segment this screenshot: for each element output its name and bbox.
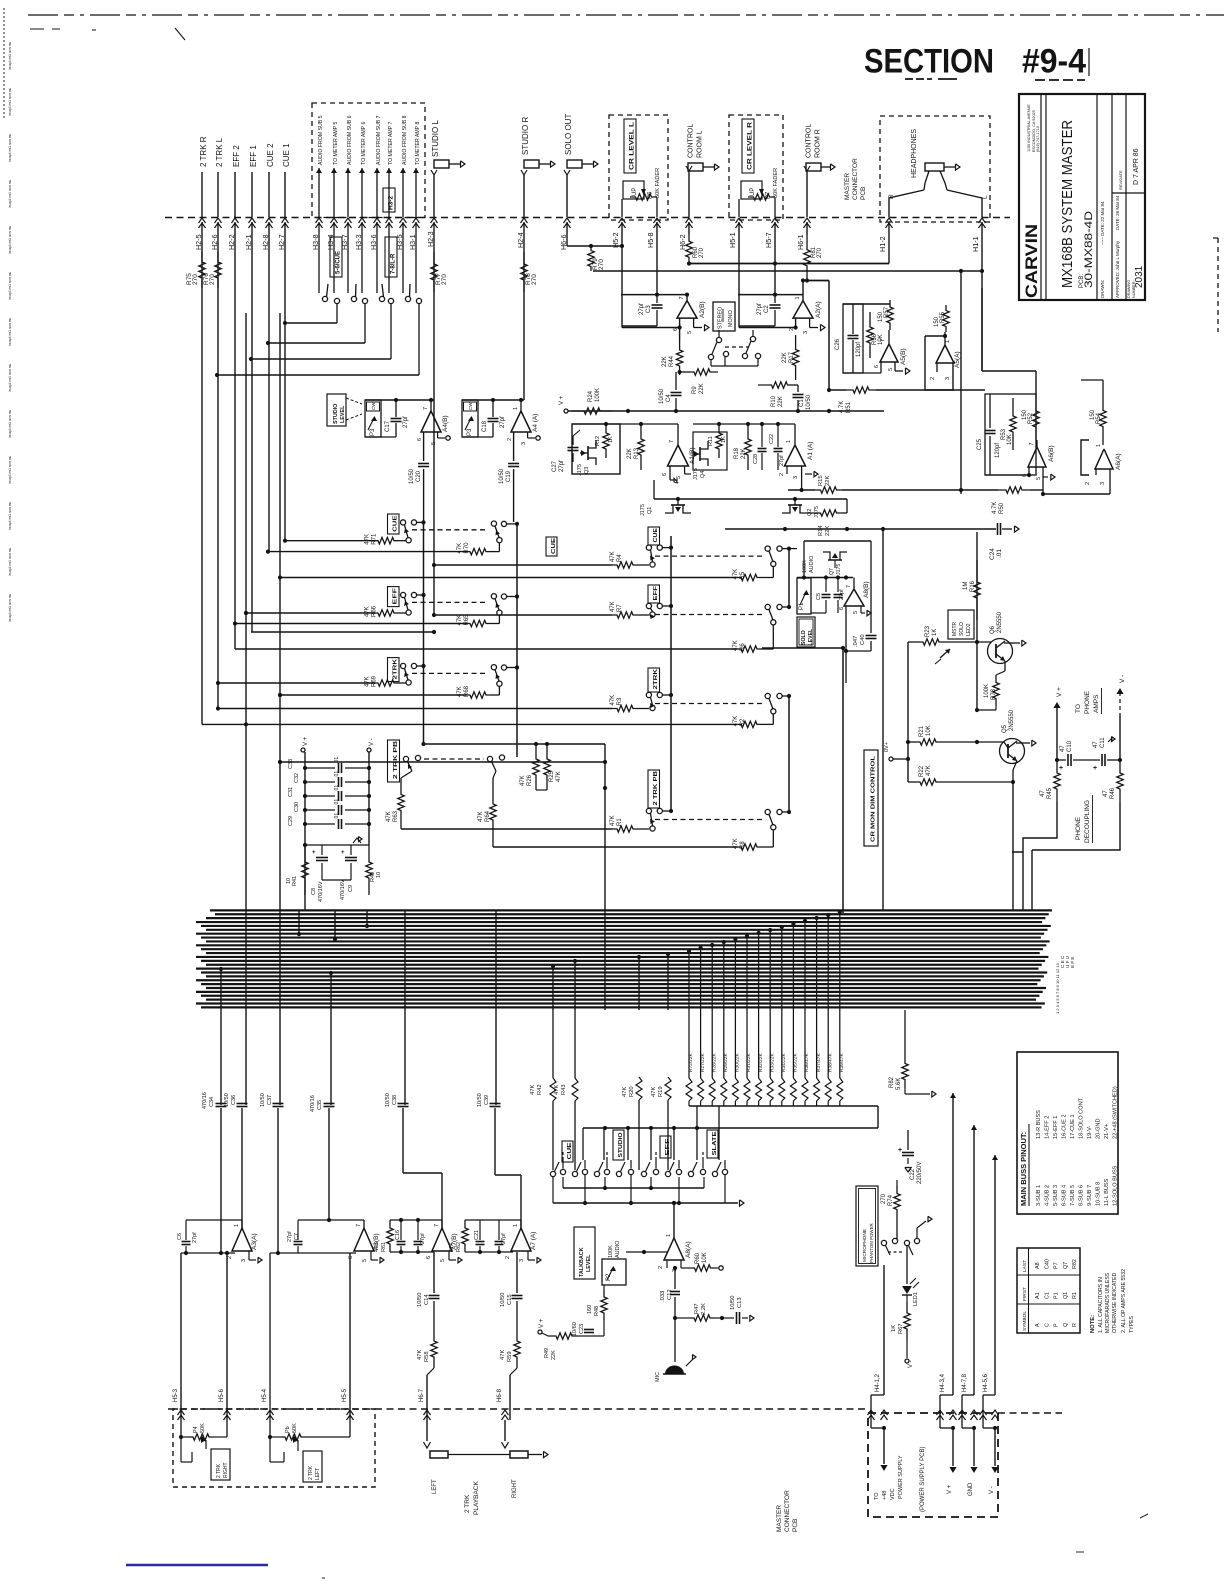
boxed label MICROPHONE PHANTOM POWER <box>856 1186 878 1266</box>
svg-text:EFF: EFF <box>665 1138 671 1156</box>
svg-text:Q6: Q6 <box>990 625 996 634</box>
label PHONE DECOUPLING <box>1075 795 1093 843</box>
svg-text:R31/22K: R31/22K <box>746 1053 752 1072</box>
svg-text:5-SUB 3: 5-SUB 3 <box>1053 1185 1059 1206</box>
svg-text:R57: R57 <box>884 306 890 318</box>
svg-text:7: 7 <box>356 1224 362 1227</box>
svg-text:2: 2 <box>930 377 936 380</box>
master connector dashed line (bottom) <box>168 1409 1062 1413</box>
boxed label SOLO LEVEL <box>797 617 815 647</box>
svg-text:P3: P3 <box>467 428 473 436</box>
wire H5-5 <box>342 1388 354 1437</box>
svg-text:MASTER: MASTER <box>776 1505 783 1532</box>
stepped feed line y343 <box>266 341 365 345</box>
svg-text:470/16: 470/16 <box>202 1092 208 1109</box>
svg-text:2 TRK L: 2 TRK L <box>215 137 224 167</box>
switch row EFF right (R7/R6) <box>235 585 791 652</box>
svg-text:RIGHT: RIGHT <box>223 1462 229 1478</box>
capacitor C4 10/50 <box>659 372 682 411</box>
resistor R19 47K <box>651 1077 671 1170</box>
feed y762 <box>278 760 605 764</box>
main buss band (26 lines) <box>196 910 1052 1007</box>
svg-text:10K: 10K <box>1007 434 1013 445</box>
svg-text:C30: C30 <box>294 802 300 812</box>
svg-text:1 2 3 4 5 6 7 8 9 10 11 12 13: 1 2 3 4 5 6 7 8 9 10 11 12 13 <box>1055 962 1060 1014</box>
svg-text:+: + <box>1059 765 1063 772</box>
transistor Q6 2N5550 <box>988 611 1027 671</box>
capacitor C36 10/50 <box>224 1093 248 1228</box>
svg-text:V +: V + <box>947 1484 953 1494</box>
svg-text:Q1: Q1 <box>647 507 653 514</box>
left margin micro text <box>4 8 12 622</box>
svg-text:6: 6 <box>839 607 845 610</box>
2 trk playback jacks <box>430 1451 548 1515</box>
svg-text:R33/22K: R33/22K <box>769 1053 775 1072</box>
dashed box CR LEVEL R <box>729 115 783 220</box>
svg-text:R49: R49 <box>544 1348 550 1358</box>
svg-text:470/16: 470/16 <box>310 1095 316 1112</box>
svg-text:LEFT: LEFT <box>432 1479 438 1494</box>
svg-text:50K FADER: 50K FADER <box>773 168 779 198</box>
svg-text:Pb: Pb <box>285 1426 291 1433</box>
pot P1 100K AUDIO <box>797 541 815 614</box>
svg-text:2: 2 <box>1085 482 1091 485</box>
svg-text:PCB: PCB <box>860 187 867 200</box>
pot P3 (studio level R) <box>462 400 478 437</box>
svg-text:C38: C38 <box>392 1095 398 1105</box>
svg-text:OTHERWISE INDICATED: OTHERWISE INDICATED <box>1112 1272 1118 1333</box>
svg-text:2 TRK: 2 TRK <box>464 1494 471 1513</box>
wire x977 down from C24 line <box>976 532 978 710</box>
boxed label CUE (matrix) <box>562 1141 573 1162</box>
svg-text:30-MX88-4D: 30-MX88-4D <box>1083 211 1095 288</box>
svg-text:R64: R64 <box>485 810 491 822</box>
svg-text:V +: V + <box>1056 687 1063 697</box>
svg-text:6: 6 <box>348 1256 354 1259</box>
svg-text:R14: R14 <box>818 525 824 536</box>
svg-text:10/60: 10/60 <box>572 1322 578 1336</box>
op-amp A8(B) <box>804 541 871 651</box>
svg-text:(619) 747-1710: (619) 747-1710 <box>1036 126 1040 152</box>
sub box wire AUDIO FROM SUB 6 <box>340 115 353 293</box>
svg-text:120pf: 120pf <box>856 342 862 357</box>
svg-text:A5(B): A5(B) <box>900 348 907 365</box>
svg-text:10/50: 10/50 <box>409 468 415 484</box>
band stub x639 <box>637 955 641 1010</box>
wire H4-5,6 V- <box>980 1155 999 1494</box>
svg-text:47K: 47K <box>386 811 392 822</box>
capacitor C19 10/50 <box>499 464 519 523</box>
svg-text:9-SUB 7: 9-SUB 7 <box>1087 1185 1093 1206</box>
svg-text:im ap4 rm1 ncm mu: im ap4 rm1 ncm mu <box>8 88 12 116</box>
svg-text:V -: V - <box>908 1360 914 1368</box>
boxed label TALKBACK LEVEL <box>574 1227 595 1279</box>
svg-text:R55: R55 <box>940 311 946 323</box>
band crossing x405 <box>404 910 406 1105</box>
svg-text:R7: R7 <box>617 604 623 612</box>
wire from H1-1 down to R52 <box>982 288 1036 398</box>
vertical x671 switch tie <box>670 536 672 811</box>
svg-text:11-L BUSS: 11-L BUSS <box>1104 1178 1110 1206</box>
svg-text:R2: R2 <box>740 718 746 726</box>
svg-text:R: R <box>1072 1323 1078 1327</box>
svg-text:22K: 22K <box>741 448 747 459</box>
svg-text:+: + <box>898 1147 902 1154</box>
svg-text:C37: C37 <box>267 1095 273 1105</box>
resistor R81 270 <box>804 235 823 281</box>
band stub x553 <box>551 964 555 1010</box>
svg-text:MICROPHONE: MICROPHONE <box>862 1229 868 1262</box>
boxed label 2 TRK RIGHT <box>211 1449 230 1480</box>
svg-text:H5-2: H5-2 <box>611 232 620 248</box>
svg-text:R34/22K: R34/22K <box>781 1053 787 1072</box>
svg-text:R60: R60 <box>695 1252 701 1264</box>
svg-text:1: 1 <box>234 1224 240 1227</box>
headphone jack <box>888 163 989 217</box>
svg-text:R16: R16 <box>970 580 976 592</box>
svg-text:R62: R62 <box>456 1242 462 1252</box>
svg-text:47: 47 <box>1103 790 1109 797</box>
resistor R23 1K <box>908 625 994 645</box>
op-amp A1(A) <box>693 422 818 490</box>
table MAIN BUSS PINOUT <box>1017 1052 1119 1214</box>
capacitor C18 27pf <box>482 400 506 437</box>
svg-text:J175: J175 <box>577 464 583 476</box>
svg-text:EFF 1: EFF 1 <box>249 145 258 167</box>
svg-text:C40: C40 <box>1044 1259 1050 1269</box>
resistor R20 47K <box>622 1077 642 1170</box>
svg-text:V -: V - <box>1119 675 1126 683</box>
svg-text:A7 (A): A7 (A) <box>530 1232 537 1250</box>
wire H5-7 <box>764 197 779 295</box>
capacitor C9 470/16V <box>340 837 362 900</box>
vertical x280 upper <box>278 313 282 910</box>
svg-text:5-6/CUE: 5-6/CUE <box>336 251 342 274</box>
op-amp A4(B) <box>365 398 450 461</box>
svg-text:CW: CW <box>371 402 376 410</box>
svg-text:R11: R11 <box>708 436 714 446</box>
matrix lower line y1203 <box>553 1175 744 1206</box>
svg-text:C20: C20 <box>416 470 422 482</box>
band stub x668 <box>666 952 670 1010</box>
svg-text:47K: 47K <box>449 1242 455 1252</box>
long feed y648 to x843 <box>762 646 845 650</box>
svg-text:H6-7: H6-7 <box>419 1388 425 1402</box>
capacitor C25 120pf block <box>977 394 1036 475</box>
svg-text:R22: R22 <box>919 765 925 777</box>
svg-text:UP: UP <box>632 188 638 196</box>
svg-text:+: + <box>1093 765 1097 772</box>
rail y280 to A6 feed <box>805 278 829 390</box>
svg-text:100K: 100K <box>802 560 808 573</box>
op-amp A2(A) <box>738 278 825 334</box>
svg-text:270: 270 <box>192 274 199 285</box>
svg-text:47K: 47K <box>457 686 463 697</box>
svg-text:MX168B SYSTEM MASTER: MX168B SYSTEM MASTER <box>1060 120 1076 288</box>
boxed label MSTR SOLO LED2 <box>948 610 974 639</box>
svg-text:C1: C1 <box>799 399 805 407</box>
svg-text:A8: A8 <box>1035 1262 1041 1269</box>
label HEADPHONES <box>911 129 918 178</box>
svg-text:A5(A): A5(A) <box>954 351 961 368</box>
resistor rack R72/R27-R39 <box>686 910 845 1106</box>
transistor Q5 2N5550 <box>1000 709 1037 782</box>
svg-text:.033: .033 <box>660 1291 666 1302</box>
boxed label CR LEVEL L <box>624 119 636 173</box>
wire H4-1,2 +48V <box>868 1265 888 1471</box>
svg-text:C36: C36 <box>231 1095 237 1105</box>
svg-text:47: 47 <box>1093 741 1099 748</box>
svg-text:C19: C19 <box>506 470 512 482</box>
sub box wire AUDIO FROM SUB 7 <box>369 115 382 293</box>
V+ arrow to phone amps <box>1053 687 1063 762</box>
svg-text:2N5550: 2N5550 <box>1009 709 1015 731</box>
capacitor C1 10/50 <box>793 385 813 411</box>
band crossing x246 <box>245 910 247 1105</box>
svg-text:.01: .01 <box>996 549 1003 558</box>
band stub x331 <box>329 971 333 1105</box>
label MASTER CONNECTOR PCB (bottom) <box>776 1490 799 1532</box>
svg-text:2031: 2031 <box>1134 265 1145 288</box>
svg-text:10/50: 10/50 <box>500 1292 506 1307</box>
svg-text:CONTROL: CONTROL <box>688 124 695 158</box>
svg-text:H3-2: H3-2 <box>388 196 395 210</box>
svg-text:C11: C11 <box>1100 737 1106 748</box>
svg-text:LED2: LED2 <box>966 623 972 636</box>
svg-text:CR LEVEL R: CR LEVEL R <box>747 122 754 170</box>
svg-text:R70: R70 <box>464 542 470 554</box>
wire H5-8 <box>646 197 661 295</box>
svg-text:C3: C3 <box>646 305 652 313</box>
svg-text:SOLO: SOLO <box>801 630 807 645</box>
wire H6-7 <box>419 1388 431 1448</box>
svg-text:R30/22K: R30/22K <box>735 1053 741 1072</box>
svg-text:Q2: Q2 <box>807 509 813 516</box>
svg-text:7: 7 <box>423 407 429 410</box>
svg-text:C24: C24 <box>989 548 996 560</box>
switch row EFF (R66/R65) <box>233 587 519 627</box>
svg-text:A2(A): A2(A) <box>815 301 822 318</box>
svg-text:3: 3 <box>803 331 809 334</box>
input wire 2 TRK R / H2-5 <box>194 136 208 724</box>
input wire 2 TRK L / H2-6 <box>210 137 224 708</box>
svg-text:C27: C27 <box>552 460 558 472</box>
svg-text:P7: P7 <box>766 191 772 199</box>
svg-text:R69: R69 <box>372 675 378 687</box>
svg-text:POWER SUPPLY: POWER SUPPLY <box>898 1455 904 1499</box>
svg-text:2TRK: 2TRK <box>653 668 659 690</box>
box STEREO/MONO <box>713 302 735 331</box>
svg-text:A: A <box>1035 1323 1041 1327</box>
label MASTER CONNECTOR PCB <box>844 158 867 200</box>
svg-text:R45: R45 <box>1047 787 1053 799</box>
svg-text:CONNECTOR: CONNECTOR <box>852 158 859 200</box>
svg-text:47K: 47K <box>417 1350 423 1360</box>
svg-text:27pf: 27pf <box>420 1233 426 1244</box>
left vertical x908 <box>906 642 910 782</box>
svg-text:5: 5 <box>676 476 682 479</box>
svg-text:270: 270 <box>817 247 823 258</box>
capacitor C5 (solo) <box>811 578 831 614</box>
svg-text:15-EFF 1: 15-EFF 1 <box>1053 1116 1059 1139</box>
input wire CUE 2 / H2-8 <box>261 143 275 552</box>
svg-text:R46: R46 <box>1110 787 1116 799</box>
svg-text:TO METER AMP 5: TO METER AMP 5 <box>333 122 339 165</box>
sub box wire AUDIO FROM SUB 5 <box>311 115 324 293</box>
svg-text:5: 5 <box>362 1259 368 1262</box>
input wire EFF 2 / H2-2 <box>227 145 241 649</box>
svg-text:R37/47K: R37/47K <box>816 1053 822 1072</box>
rail y499 with Q1 Q2 <box>654 480 847 501</box>
resistor R52 150 <box>1022 398 1039 440</box>
JFET Q2 (J175) <box>782 499 820 518</box>
capacitor 27pf (solo) <box>834 578 846 614</box>
resistor R63 47K <box>386 771 412 827</box>
V- arrow <box>1116 675 1126 762</box>
svg-text:4.7K: 4.7K <box>992 502 998 514</box>
switch row 2TRK PB right (R1/R8) <box>401 770 791 850</box>
switch row 2TRK right (R3/R2) <box>202 668 791 728</box>
microphone MIC <box>655 1318 696 1382</box>
svg-text:AUDIO FROM SUB 5: AUDIO FROM SUB 5 <box>318 115 324 165</box>
JFET Q3 block (J175) <box>572 424 620 476</box>
resistor R78 270 <box>521 252 538 292</box>
svg-text:+48: +48 <box>882 1491 888 1500</box>
svg-text:C7: C7 <box>294 1233 300 1240</box>
op-amp A5(A) <box>925 332 961 390</box>
svg-text:50K FADER: 50K FADER <box>655 168 661 198</box>
svg-text:C26: C26 <box>835 338 841 350</box>
svg-text:ROOM R: ROOM R <box>815 129 822 158</box>
sub box wire TO METER AMP 5 <box>326 122 339 293</box>
resistor R12 1K <box>595 424 614 458</box>
CR mon dim wire x884 <box>881 527 885 910</box>
svg-text:J175: J175 <box>814 506 820 518</box>
resistor R17 22K <box>782 335 799 380</box>
svg-text:7: 7 <box>434 1224 440 1227</box>
switch pair at x325 <box>322 284 339 323</box>
svg-text:im ap4 rm1 ncm mu: im ap4 rm1 ncm mu <box>8 502 12 530</box>
svg-text:+: + <box>341 850 345 856</box>
svg-text:5: 5 <box>440 1259 446 1262</box>
svg-text:R32/22K: R32/22K <box>758 1053 764 1072</box>
svg-text:TALKBACK: TALKBACK <box>579 1247 585 1277</box>
svg-text:R44: R44 <box>669 355 675 367</box>
capacitor C34 470/16 <box>202 1092 227 1255</box>
svg-text:220/50V: 220/50V <box>917 1162 923 1184</box>
capacitor C38 10/50 <box>385 1093 442 1228</box>
stepped feed line y359 <box>249 357 391 361</box>
svg-text:8-SUB 6: 8-SUB 6 <box>1079 1185 1085 1206</box>
svg-text:H5-3: H5-3 <box>173 1388 179 1402</box>
sub box wire TO METER AMP 7 <box>386 122 394 293</box>
title block <box>1019 94 1145 300</box>
V- route to band <box>1032 802 1120 910</box>
svg-text:19-V-: 19-V- <box>1087 1125 1093 1139</box>
A2 output switch pair <box>708 330 760 366</box>
resistor R59 47K <box>500 1301 520 1420</box>
svg-text:C10: C10 <box>1067 740 1073 752</box>
svg-text:MASTER: MASTER <box>844 173 851 200</box>
svg-text:5.6K: 5.6K <box>896 1078 902 1090</box>
svg-text:1: 1 <box>786 440 792 443</box>
svg-text:C6: C6 <box>177 1233 183 1240</box>
resistor R10 22K <box>758 366 798 407</box>
svg-text:2.2K: 2.2K <box>701 1303 707 1315</box>
capacitor C11 47 <box>1093 737 1120 772</box>
svg-text:P6: P6 <box>648 191 654 199</box>
svg-text:270: 270 <box>881 1193 887 1204</box>
svg-text:7-SUB 5: 7-SUB 5 <box>1070 1185 1076 1206</box>
resistor R47 2.2K <box>673 1303 724 1321</box>
svg-text:A6(A): A6(A) <box>1115 453 1122 470</box>
wire H1-2 <box>878 218 893 264</box>
svg-text:47: 47 <box>1040 790 1046 797</box>
op-amp A2(B) <box>621 293 709 342</box>
svg-text:R38/47K: R38/47K <box>827 1053 833 1072</box>
svg-text:MSTR: MSTR <box>952 621 958 636</box>
svg-text:47K: 47K <box>556 771 562 782</box>
resistor R46 47 <box>1103 760 1123 802</box>
svg-text:STUDIO: STUDIO <box>333 404 339 424</box>
svg-text:3: 3 <box>521 442 527 445</box>
svg-text:EFF 2: EFF 2 <box>232 145 241 167</box>
svg-text:C12: C12 <box>667 1289 673 1300</box>
svg-text:V -: V - <box>989 1486 995 1494</box>
svg-text:STUDIO L: STUDIO L <box>431 120 440 157</box>
wire Q5 emitter to band <box>1012 782 1014 910</box>
svg-text:160: 160 <box>587 1305 593 1314</box>
svg-text:H5-7: H5-7 <box>764 232 773 248</box>
svg-text:10: 10 <box>376 872 382 878</box>
svg-text:12-SOLO BUSS: 12-SOLO BUSS <box>1113 1165 1119 1206</box>
matrix lower line y1188 <box>563 1177 704 1190</box>
buss pin numbers (right edge) <box>1055 955 1075 1014</box>
svg-text:R63: R63 <box>393 810 399 822</box>
switch row CUE (R71/R70) <box>266 514 519 555</box>
svg-text:im ap4 rm1 ncm mu: im ap4 rm1 ncm mu <box>8 318 12 346</box>
svg-text:A8(B): A8(B) <box>863 581 870 598</box>
svg-text:LED1: LED1 <box>913 1292 919 1306</box>
svg-text:SYMBOL: SYMBOL <box>1022 1311 1028 1331</box>
svg-text:R1: R1 <box>1072 1292 1078 1299</box>
boxed label STUDIO (matrix) <box>613 1130 624 1160</box>
svg-text:47K: 47K <box>733 569 739 580</box>
svg-text:H5-4: H5-4 <box>262 1388 268 1402</box>
svg-text:47K: 47K <box>478 811 484 822</box>
svg-text:C9: C9 <box>348 885 354 892</box>
switch row CUE right (R4/R5) <box>280 527 791 581</box>
capacitor C40 .047 <box>844 541 877 683</box>
wire H1-1 <box>971 218 986 371</box>
wire H6-8 <box>497 1388 509 1448</box>
svg-text:R28/22K: R28/22K <box>711 1053 717 1072</box>
wire H5-2 <box>611 199 626 328</box>
svg-text:1: 1 <box>666 1234 672 1237</box>
svg-text:10/50: 10/50 <box>730 1295 736 1310</box>
svg-text:C15: C15 <box>507 1294 513 1305</box>
svg-text:27pf: 27pf <box>779 455 785 466</box>
svg-text:TO METER AMP 8: TO METER AMP 8 <box>415 122 421 165</box>
resistor R82 5.6K <box>889 1010 936 1097</box>
wire H4-3,4 V+ <box>937 1093 957 1494</box>
wire H5-1 <box>728 199 743 328</box>
svg-text:H5-6: H5-6 <box>219 1388 225 1402</box>
svg-text:R20: R20 <box>629 1086 635 1097</box>
svg-text:47K: 47K <box>926 765 932 776</box>
top border dashed line <box>28 14 1224 16</box>
svg-text:im ap4 rm1 ncm mu: im ap4 rm1 ncm mu <box>8 134 12 162</box>
